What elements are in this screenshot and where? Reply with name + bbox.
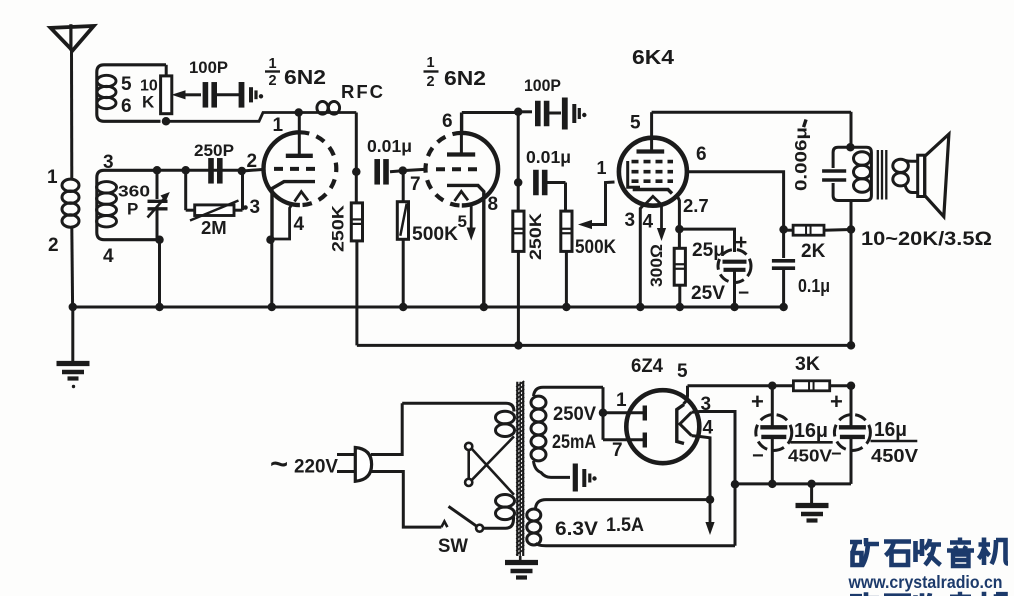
- junction rail x159: [155, 303, 164, 312]
- label V4 pin 7: [612, 440, 623, 461]
- label 360: [118, 184, 150, 201]
- wire V4 pin3: [692, 412, 736, 546]
- junction C10 top: [768, 382, 777, 391]
- label C7 25u: [692, 240, 725, 261]
- svg-text:1: 1: [427, 55, 435, 71]
- svg-text:6N2: 6N2: [284, 67, 326, 89]
- svg-text:500K: 500K: [412, 223, 458, 245]
- label V4 6Z4: [631, 355, 663, 377]
- svg-text:+: +: [735, 231, 747, 254]
- resistor R7 2K: [784, 225, 851, 235]
- wire top rail to T3: [402, 403, 514, 411]
- rectifier V4 6Z4: [603, 386, 699, 463]
- triode V1 1/2 6N2: [263, 113, 336, 240]
- junction rail x403: [399, 303, 408, 312]
- svg-text:P: P: [127, 200, 138, 219]
- label V3 pin 5: [630, 113, 641, 134]
- svg-text:25V: 25V: [691, 283, 725, 304]
- variable capacitor C2 360P: [148, 170, 170, 239]
- label dot-3 node: [243, 197, 260, 218]
- wire 360P to ground rail: [158, 240, 161, 307]
- pentode V3 6K4: [619, 112, 687, 206]
- label C10 minus: [752, 445, 764, 467]
- label 6.3V: [555, 518, 598, 540]
- svg-text:1: 1: [269, 56, 277, 72]
- svg-text:3: 3: [250, 197, 261, 218]
- junction pot bottom: [162, 117, 171, 126]
- label SW: [438, 535, 469, 557]
- capacitor C9 0.006u: [822, 171, 846, 180]
- label K: [142, 93, 155, 112]
- junction 2M left: [181, 166, 190, 175]
- label V1 pin 4: [294, 214, 305, 235]
- junction 3K right: [847, 382, 856, 391]
- transformer T3 core: [516, 381, 524, 560]
- wire V2 plate down: [517, 112, 520, 211]
- wire box B top: [155, 169, 243, 172]
- junction heater gnd: [731, 480, 740, 489]
- side ground (C1): [242, 82, 264, 108]
- B+ rail: [357, 344, 851, 347]
- wire B+ vertical: [850, 112, 853, 346]
- capacitor C4 0.01u: [377, 159, 386, 185]
- svg-text:~: ~: [270, 446, 288, 481]
- junction C6 node: [514, 178, 523, 187]
- label C11 16u: [871, 419, 918, 441]
- junction C10 bottom: [768, 480, 777, 489]
- svg-text:450V: 450V: [871, 446, 918, 466]
- wire L1 to ground: [71, 307, 74, 361]
- wire R4 to B+ rail: [517, 251, 520, 345]
- svg-text:4: 4: [703, 418, 714, 439]
- label C10 plus: [751, 389, 764, 414]
- label pin 2 (V1 grid): [247, 151, 258, 172]
- wire to C7: [679, 229, 734, 252]
- speaker: [918, 134, 949, 217]
- wire C4 to V2 grid: [390, 171, 404, 172]
- svg-text:1: 1: [47, 167, 58, 188]
- capacitor C5 100P: [518, 101, 561, 127]
- mains plug: [337, 448, 372, 482]
- capacitor C8 0.1u: [772, 261, 795, 307]
- svg-text:2: 2: [48, 235, 59, 256]
- svg-text:1: 1: [273, 115, 284, 136]
- resistor R1 2M: [186, 170, 243, 220]
- junction B+ R4: [514, 341, 523, 350]
- svg-text:2: 2: [427, 74, 435, 90]
- svg-text:3K: 3K: [795, 353, 820, 375]
- junction rail x72: [69, 303, 78, 312]
- resistor R5 500K (volume): [561, 183, 572, 252]
- svg-text:100P: 100P: [524, 76, 561, 95]
- potentiometer RP1 10K: [161, 65, 172, 114]
- capacitor C7 25u 25V: [718, 250, 751, 308]
- label R1 2M: [201, 217, 227, 238]
- junction V1 cathode: [266, 235, 275, 244]
- junction C4 node: [352, 168, 361, 177]
- coil L2 box (pins 3-4): [97, 170, 161, 239]
- svg-text:6N2: 6N2: [444, 68, 486, 90]
- label C10 16u: [790, 420, 832, 442]
- watermark url: [848, 572, 1003, 592]
- label C10 450V: [788, 444, 842, 466]
- wire R6 to rail: [678, 285, 681, 307]
- svg-text:500K: 500K: [575, 237, 616, 258]
- svg-text:6.3V: 6.3V: [555, 518, 598, 540]
- label V4 pin 3: [701, 394, 712, 415]
- svg-text:2: 2: [269, 73, 277, 89]
- junction V2 plate node: [514, 108, 523, 117]
- svg-text:5: 5: [121, 74, 132, 95]
- svg-text:8: 8: [488, 194, 499, 215]
- svg-text:5: 5: [630, 113, 641, 134]
- svg-text:16μ: 16μ: [874, 419, 907, 441]
- label impedance: [861, 228, 992, 250]
- junction B+ right: [847, 341, 856, 350]
- capacitor C6 0.01u: [536, 170, 566, 196]
- coil L1 (ant primary): [62, 179, 79, 307]
- watermark row 2 (clipped): [850, 592, 1008, 596]
- label R5 500K: [575, 237, 616, 258]
- transformer T2 secondary: [893, 159, 918, 192]
- capacitor C3 250P: [211, 158, 220, 184]
- wire plug bottom: [371, 472, 441, 528]
- label R2 250K: [329, 204, 348, 252]
- svg-text:K: K: [142, 93, 155, 112]
- svg-text:−: −: [738, 283, 749, 304]
- heater arrow V3 pin 4: [657, 206, 666, 241]
- coil L4 box (pins 5-6): [97, 65, 166, 122]
- wire V3 screen: [687, 172, 784, 258]
- wire V3 cathode to rail: [640, 205, 644, 308]
- junction rail x640: [636, 303, 645, 312]
- junction OT bottom 2K: [847, 225, 856, 234]
- svg-text:RFC: RFC: [341, 81, 385, 102]
- choke L3 RFC: [294, 101, 339, 116]
- svg-text:25μ: 25μ: [692, 240, 725, 261]
- wire V4 pin4: [692, 436, 711, 500]
- transformer T2 primary: [833, 147, 871, 200]
- label L1 pin 1: [47, 167, 58, 188]
- resistor R6 300: [674, 248, 685, 285]
- junction V2 grid: [399, 166, 408, 175]
- junction OT top: [846, 143, 855, 152]
- transformer T3 6.3V winding: [527, 500, 735, 546]
- junction rail x566: [562, 303, 571, 312]
- ground (T3 core): [505, 563, 538, 578]
- voltage selector: [465, 436, 514, 494]
- label R4 250K: [526, 212, 545, 260]
- svg-text:1: 1: [597, 158, 607, 178]
- label pin 6: [121, 96, 132, 117]
- wire pot to V1 plate node: [166, 113, 356, 122]
- svg-text:SW: SW: [438, 535, 469, 557]
- label C5: [524, 76, 561, 95]
- label V2 pin 6: [442, 111, 453, 132]
- svg-text:4: 4: [294, 214, 305, 235]
- label 1.5A: [606, 514, 644, 536]
- label 250V: [553, 404, 596, 425]
- junction 2.7 node: [675, 225, 684, 234]
- wire C1 to ground: [216, 93, 239, 96]
- label C4: [367, 136, 412, 156]
- svg-text:2M: 2M: [201, 217, 227, 238]
- label 25mA: [552, 432, 596, 453]
- switch SW: [441, 506, 513, 531]
- junction rail x483: [480, 303, 489, 312]
- svg-text:360: 360: [118, 184, 150, 201]
- svg-text:4: 4: [103, 246, 114, 267]
- svg-text:250K: 250K: [329, 204, 348, 252]
- svg-text:220V: 220V: [294, 456, 338, 478]
- svg-text:0.01μ: 0.01μ: [367, 136, 412, 156]
- svg-text:1: 1: [616, 390, 627, 411]
- negative rail: [735, 482, 851, 485]
- label V2 pin 8: [488, 194, 499, 215]
- capacitor C11 16u 450V: [834, 386, 870, 484]
- svg-text:5: 5: [458, 212, 467, 231]
- label R7 2K: [801, 241, 826, 262]
- svg-text:100P: 100P: [189, 58, 228, 77]
- transformer T3 HV winding: [531, 387, 603, 477]
- heater arrow V4: [705, 500, 714, 535]
- svg-text:250K: 250K: [526, 212, 545, 260]
- wire R5 to rail: [565, 251, 568, 307]
- label 220V: [270, 446, 338, 481]
- label C1: [189, 58, 228, 77]
- ground (antenna): [57, 364, 90, 389]
- resistor R4 250K: [513, 211, 524, 251]
- transformer T3 primary lower: [496, 495, 515, 520]
- heater arrow V2 pin 5: [467, 206, 476, 241]
- label V1 1/2 6N2: [265, 56, 326, 89]
- svg-text:−: −: [752, 445, 764, 467]
- junction grid node 2: [238, 167, 247, 176]
- label P: [127, 200, 138, 219]
- label V1 pin 1: [273, 115, 284, 136]
- junction box B bottom: [155, 235, 164, 244]
- label V4 pin 4: [703, 418, 714, 439]
- svg-text:6: 6: [121, 96, 132, 117]
- svg-text:10~20K/3.5Ω: 10~20K/3.5Ω: [861, 228, 992, 250]
- label RFC: [341, 81, 385, 102]
- wire V2 plate: [462, 113, 518, 134]
- junction V4 feed: [599, 409, 608, 418]
- resistor R8 3K: [772, 381, 851, 391]
- capacitor C1 100P: [205, 82, 214, 108]
- label V3 pin 3: [625, 210, 636, 231]
- wire plug top: [371, 403, 402, 454]
- label V2 pin 5: [458, 212, 467, 231]
- label R6 300: [647, 244, 666, 287]
- svg-text:0.1μ: 0.1μ: [798, 276, 830, 296]
- watermark row 1: [850, 538, 1008, 567]
- ground (filter): [796, 484, 829, 521]
- label C3 250P: [194, 141, 234, 160]
- label C6: [526, 147, 571, 167]
- label 10: [140, 78, 158, 95]
- svg-text:0.006μ: 0.006μ: [792, 127, 811, 191]
- wire V2 grid lead: [403, 169, 427, 170]
- label C11 450V: [871, 446, 918, 466]
- label R3 500K: [412, 223, 458, 245]
- svg-text:3: 3: [625, 210, 636, 231]
- junction rail x679: [676, 303, 685, 312]
- svg-text:7: 7: [612, 440, 623, 461]
- wiper arrow V3 grid: [578, 182, 615, 229]
- svg-text:3: 3: [103, 152, 114, 173]
- svg-text:16μ: 16μ: [794, 420, 828, 442]
- junction main ground: [807, 480, 816, 489]
- svg-text:www.crystalradio.cn: www.crystalradio.cn: [848, 572, 1003, 592]
- svg-text:6: 6: [442, 111, 453, 132]
- antenna: [51, 24, 94, 179]
- svg-text:6Z4: 6Z4: [631, 355, 663, 377]
- junction 360P top: [153, 166, 162, 175]
- label R8 3K: [795, 353, 820, 375]
- svg-text:+: +: [830, 389, 843, 414]
- svg-text:7: 7: [410, 174, 421, 195]
- svg-text:1.5A: 1.5A: [606, 514, 644, 536]
- wire V3 plate to B+: [652, 111, 851, 114]
- resistor R2 250K: [351, 203, 362, 241]
- svg-text:450V: 450V: [788, 446, 832, 466]
- svg-text:0.01μ: 0.01μ: [526, 147, 571, 167]
- wire V1 cathode to rail: [270, 240, 273, 307]
- label V2 1/2 6N2: [424, 55, 487, 90]
- junction rail x734: [730, 303, 739, 312]
- svg-text:250V: 250V: [553, 404, 596, 425]
- svg-text:300Ω: 300Ω: [647, 244, 666, 287]
- label V4 pin 1: [616, 390, 627, 411]
- junction rail x271: [268, 303, 277, 312]
- label C11 plus: [830, 389, 843, 414]
- label C9 0.006u: [792, 119, 811, 191]
- svg-text:+: +: [751, 389, 764, 414]
- side ground (HV ct): [575, 464, 596, 492]
- wire RFC to C4 node: [355, 113, 358, 203]
- svg-text:6: 6: [696, 144, 707, 165]
- junction 6.3V top: [706, 495, 715, 504]
- transformer T2 core: [878, 150, 887, 200]
- wire V4 cathode out: [688, 384, 773, 387]
- capacitor C10 16u 450V: [756, 386, 792, 484]
- svg-text:2K: 2K: [801, 241, 826, 262]
- label pin 3: [103, 152, 114, 173]
- resistor R3 500K (reg): [397, 171, 408, 307]
- label C7 25V: [691, 283, 725, 304]
- junction rail x783: [779, 303, 788, 312]
- label C7 minus: [738, 283, 749, 304]
- svg-text:6K4: 6K4: [632, 46, 675, 69]
- svg-text:25mA: 25mA: [552, 432, 596, 453]
- wire R2 to B+ rail: [355, 241, 358, 346]
- ground rail: [73, 306, 784, 309]
- svg-text:5: 5: [677, 361, 688, 382]
- svg-text:2.7: 2.7: [683, 195, 709, 216]
- label V3 pin 1: [597, 158, 607, 178]
- label pin 5: [121, 74, 132, 95]
- label V3 pin 4: [643, 212, 654, 233]
- label V3 6K4: [632, 46, 675, 69]
- junction 2K left: [779, 225, 788, 234]
- triode V2 1/2 6N2: [426, 113, 499, 308]
- svg-text:250P: 250P: [194, 141, 234, 160]
- label C7 plus: [735, 231, 747, 254]
- label C8 0.1u: [798, 276, 830, 296]
- transformer T3 primary upper: [496, 411, 515, 436]
- wire C3 to V1 grid: [243, 169, 266, 171]
- side ground (C5): [565, 98, 587, 130]
- wire V3 g3 to 300ohm: [678, 197, 680, 249]
- label V2 pin 7: [410, 174, 421, 195]
- label V3 pin 6: [696, 144, 707, 165]
- label 2.7: [683, 195, 709, 216]
- label L1 pin 2: [48, 235, 59, 256]
- label V4 pin 5: [677, 361, 688, 382]
- wiper arrow RP1: [172, 90, 202, 99]
- label pin 4: [103, 246, 114, 267]
- svg-text:4: 4: [643, 212, 654, 233]
